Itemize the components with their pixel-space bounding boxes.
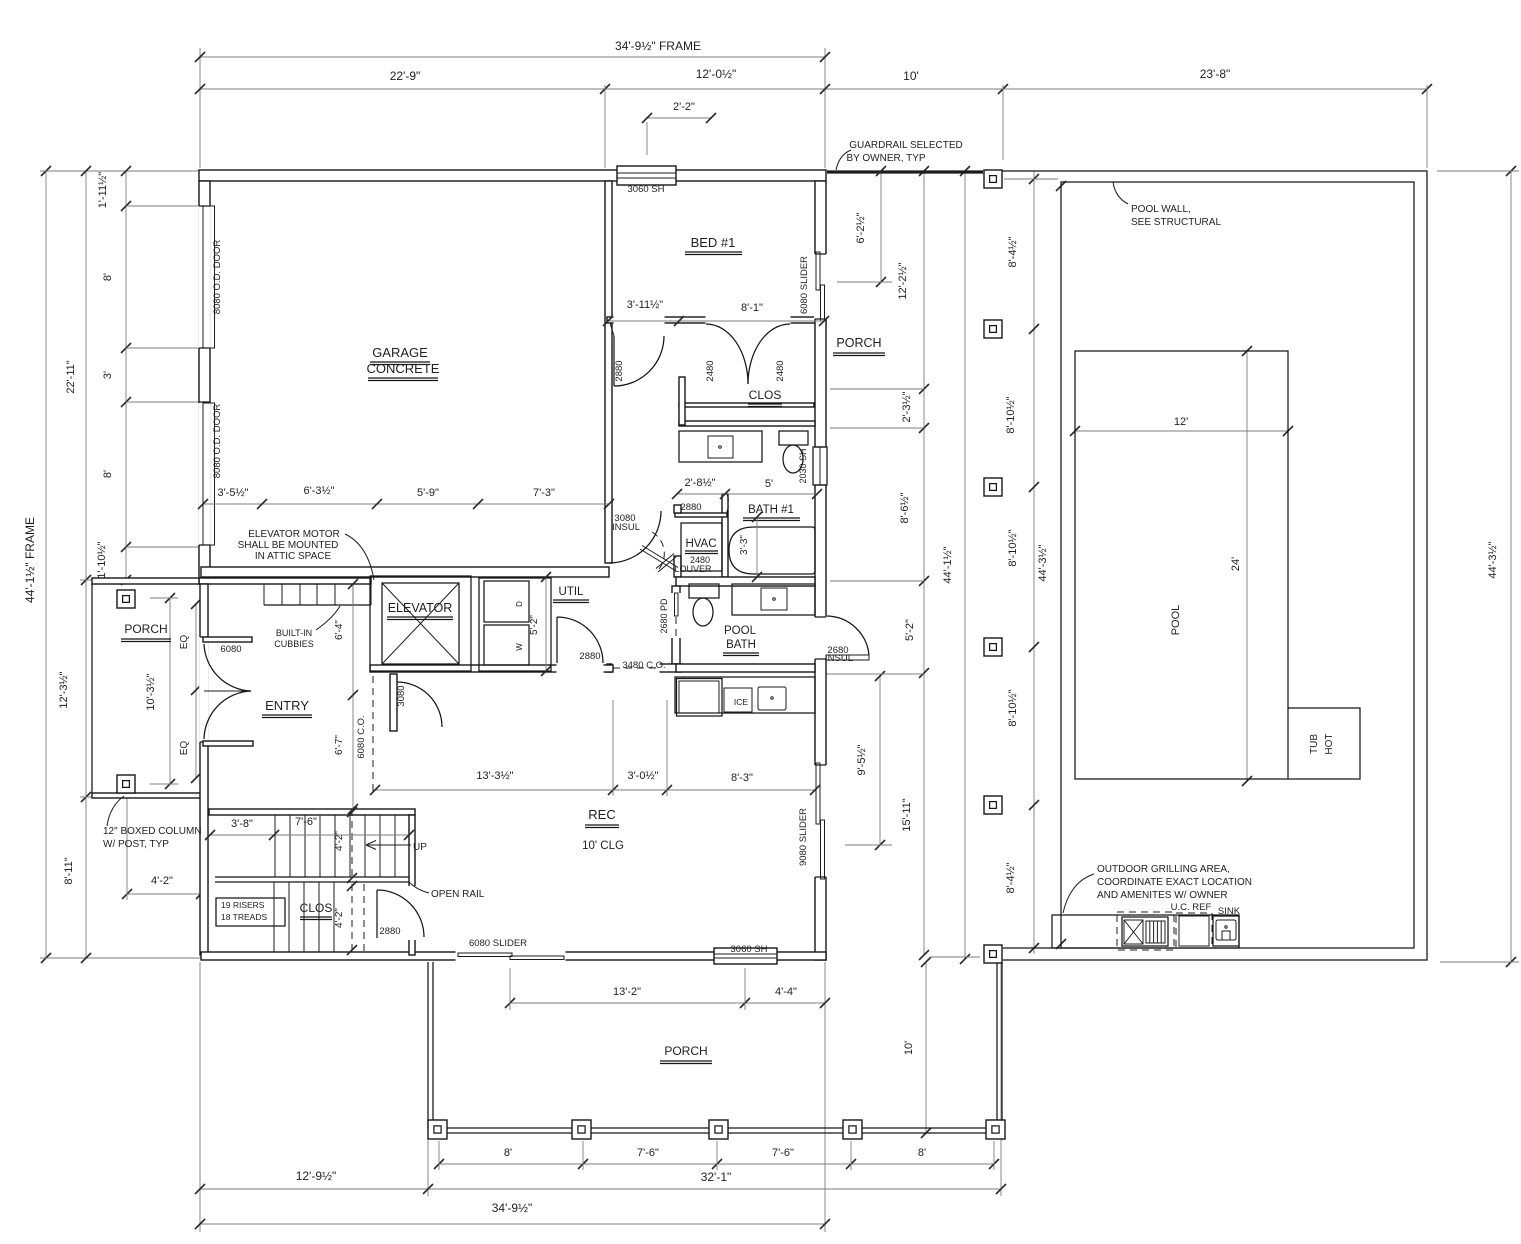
- svg-text:SEE STRUCTURAL: SEE STRUCTURAL: [1131, 217, 1221, 228]
- svg-text:CUBBIES: CUBBIES: [274, 639, 314, 649]
- svg-text:2'-2": 2'-2": [673, 101, 695, 113]
- closet door opening 2480x2: [706, 316, 791, 324]
- dim east column chain 8-4.5/8-10.5x3/8-4.5: [1033, 171, 1035, 954]
- svg-text:8'-3": 8'-3": [731, 772, 753, 784]
- svg-text:COORDINATE EXACT LOCATION: COORDINATE EXACT LOCATION: [1097, 877, 1252, 888]
- uc ref dashed box: [1176, 913, 1212, 948]
- dim chain 12-2.5/2-3.5/8-6.5/5-2/15-11: [923, 171, 925, 955]
- porch column: [572, 1120, 591, 1139]
- svg-text:7'-6": 7'-6": [637, 1147, 659, 1159]
- pool: [1075, 351, 1360, 779]
- 3'-3" dim: [756, 517, 758, 577]
- svg-text:2480: 2480: [775, 360, 786, 381]
- svg-text:4'-4": 4'-4": [775, 986, 797, 998]
- svg-text:UTIL: UTIL: [559, 586, 585, 598]
- svg-text:10' CLG: 10' CLG: [582, 840, 624, 852]
- svg-text:44'-3½": 44'-3½": [1487, 541, 1499, 578]
- util door 2880: [556, 617, 558, 663]
- svg-text:EQ: EQ: [179, 741, 190, 756]
- under-stair dashed lines + 4'-2" dims: [351, 809, 353, 880]
- svg-text:INSUL: INSUL: [825, 653, 853, 664]
- svg-text:34'-9½": 34'-9½": [492, 1201, 533, 1215]
- svg-text:9080 SLIDER: 9080 SLIDER: [798, 808, 809, 866]
- svg-text:44'-1½": 44'-1½": [942, 546, 954, 583]
- svg-text:2'-8½": 2'-8½": [684, 477, 715, 489]
- south porch rails: [427, 962, 429, 1129]
- dim 24' (pool): [1246, 351, 1248, 781]
- 6'-4" / 6'-7" dim: [352, 584, 354, 809]
- HVAC north wall: [675, 513, 727, 517]
- slider 9080 symbol (rec): [816, 763, 820, 824]
- HVAC west jamb: [674, 505, 681, 513]
- svg-text:LOUVER: LOUVER: [674, 564, 712, 574]
- svg-text:12'-9½": 12'-9½": [296, 1169, 337, 1183]
- svg-text:BATH: BATH: [726, 639, 756, 651]
- rec dim 13'-3 1/2" / 3'-0 1/2" / 8'-3": [375, 789, 815, 791]
- svg-text:7'-6": 7'-6": [295, 816, 317, 828]
- stair east wall: [409, 815, 415, 955]
- porch column: [843, 1120, 862, 1139]
- svg-text:HOT: HOT: [1324, 733, 1335, 754]
- svg-text:5': 5': [765, 478, 773, 490]
- pool wall inner: [1061, 182, 1414, 948]
- dim 12' (pool): [1075, 430, 1288, 432]
- svg-text:CLOS: CLOS: [749, 388, 782, 402]
- svg-text:22'-11": 22'-11": [65, 360, 77, 393]
- guardrail (top porch edge): [827, 170, 983, 173]
- garage south wall: [201, 567, 609, 577]
- slider 9080 opening: [814, 765, 827, 877]
- svg-text:4'-2": 4'-2": [334, 831, 345, 851]
- svg-text:5'-2": 5'-2": [529, 615, 540, 635]
- window 2030 opening: [814, 447, 827, 485]
- grill sink: [1213, 916, 1239, 946]
- svg-text:3'-11½": 3'-11½": [627, 299, 663, 311]
- svg-text:2880: 2880: [614, 360, 625, 381]
- svg-text:POOL WALL,: POOL WALL,: [1131, 204, 1191, 215]
- dim 34'-9 1/2" (bottom): [200, 1223, 825, 1225]
- svg-text:W/ POST, TYP: W/ POST, TYP: [103, 839, 169, 850]
- pool bath vanity: [732, 584, 815, 615]
- svg-text:2680 PD: 2680 PD: [659, 598, 669, 634]
- garage bottom dim 3-5.5/6-3.5/5-9/7-3: [203, 503, 609, 505]
- kitchen counter: [675, 677, 815, 713]
- dim porch columns 8/7-6/7-6/8 (bottom): [439, 1163, 994, 1165]
- stair upper flight treads: [274, 815, 276, 877]
- svg-text:5'-9": 5'-9": [417, 487, 439, 499]
- svg-text:U.C. REF: U.C. REF: [1171, 902, 1212, 913]
- svg-text:PORCH: PORCH: [664, 1044, 707, 1058]
- svg-text:15'-11": 15'-11": [901, 798, 913, 831]
- svg-text:PORCH: PORCH: [836, 336, 881, 350]
- svg-text:BUILT-IN: BUILT-IN: [276, 628, 312, 638]
- east exterior wall: [815, 181, 826, 960]
- bath toilet: [779, 431, 808, 445]
- svg-text:UP: UP: [413, 842, 427, 853]
- svg-text:SINK: SINK: [1218, 906, 1241, 917]
- svg-text:8': 8': [102, 273, 114, 281]
- pool bath toilet: [689, 584, 719, 598]
- svg-text:BATH #1: BATH #1: [748, 504, 794, 516]
- W/D closet: [479, 578, 551, 671]
- slider 6080 symbol (south): [458, 953, 512, 957]
- svg-text:18 TREADS: 18 TREADS: [221, 912, 267, 922]
- svg-text:12" BOXED COLUMN: 12" BOXED COLUMN: [103, 826, 202, 837]
- window 3060 SH symbol (south): [714, 948, 777, 964]
- svg-text:OUTDOOR GRILLING AREA,: OUTDOOR GRILLING AREA,: [1097, 864, 1230, 875]
- bath dim 2'-8 1/2" / 5': [677, 493, 817, 495]
- svg-text:REC: REC: [588, 807, 615, 822]
- elevator shaft: [370, 576, 471, 671]
- grill dashed box: [1117, 912, 1174, 950]
- svg-text:BY OWNER, TYP: BY OWNER, TYP: [846, 153, 925, 164]
- dim 6'-2 1/2": [880, 171, 882, 282]
- svg-text:1'-10½": 1'-10½": [96, 541, 108, 578]
- svg-text:22'-9": 22'-9": [390, 69, 421, 83]
- dim 10' (porch right): [925, 962, 927, 1133]
- porch column: [986, 1120, 1005, 1139]
- svg-text:8': 8': [504, 1147, 512, 1159]
- stair landing: [215, 876, 409, 878]
- svg-text:2880: 2880: [379, 926, 400, 937]
- svg-text:3'-0½": 3'-0½": [627, 770, 658, 782]
- bath vanity: [679, 431, 762, 462]
- svg-text:1'-11½": 1'-11½": [97, 172, 109, 208]
- svg-text:POOL: POOL: [1170, 605, 1182, 636]
- garage door opening A: [198, 206, 211, 348]
- svg-text:SHALL BE MOUNTED: SHALL BE MOUNTED: [238, 540, 339, 551]
- bar sink: [758, 687, 786, 710]
- dim 4'-2" (porch col): [127, 893, 201, 895]
- south wall opening jamb caps: [455, 952, 457, 960]
- svg-text:8'-10½": 8'-10½": [1007, 529, 1019, 566]
- svg-text:6080 SLIDER: 6080 SLIDER: [469, 938, 527, 949]
- svg-text:3'-8": 3'-8": [231, 818, 253, 830]
- porch column: [117, 775, 135, 793]
- svg-text:AND AMENITES W/ OWNER: AND AMENITES W/ OWNER: [1097, 890, 1228, 901]
- slider 6080 symbol (bed): [816, 252, 820, 290]
- svg-text:IN ATTIC SPACE: IN ATTIC SPACE: [255, 551, 332, 562]
- svg-text:EQ: EQ: [179, 635, 190, 650]
- svg-text:4'-2": 4'-2": [334, 908, 345, 928]
- pool bath west wall: [672, 586, 680, 664]
- svg-text:8'-11": 8'-11": [63, 857, 75, 884]
- stair hall door 3080: [390, 674, 397, 731]
- fridge box: [677, 679, 723, 717]
- stair north wall: [209, 809, 415, 815]
- elevator row south wall: [370, 665, 613, 672]
- dim 44'-1 1/2" (porch/pool): [964, 171, 966, 959]
- west wall (entry/stairs): [200, 584, 208, 955]
- svg-text:INSUL: INSUL: [612, 522, 640, 533]
- svg-text:34'-9½" FRAME: 34'-9½" FRAME: [615, 39, 701, 53]
- svg-text:8': 8': [918, 1147, 926, 1159]
- svg-text:6080 SLIDER: 6080 SLIDER: [799, 256, 810, 314]
- front door 6080 double: [203, 637, 252, 642]
- pocket door 2680 PD symbol: [675, 593, 679, 616]
- svg-text:9'-5½": 9'-5½": [856, 744, 868, 775]
- slider 6080 opening: [814, 254, 827, 319]
- svg-text:4'-2": 4'-2": [151, 875, 173, 887]
- svg-text:GARAGE: GARAGE: [372, 345, 428, 360]
- dim 2'-2" (window offset): [647, 117, 711, 119]
- svg-text:3080: 3080: [396, 685, 407, 706]
- pool bath door 2680 INSUL: [826, 655, 869, 660]
- svg-text:8'-6½": 8'-6½": [899, 492, 911, 523]
- dim 44'-3 1/2" (far right): [1510, 171, 1512, 962]
- porch column: [984, 320, 1002, 338]
- grill: [1122, 917, 1168, 946]
- svg-text:12': 12': [1174, 416, 1188, 428]
- porch column: [428, 1120, 447, 1139]
- porch column: [984, 796, 1002, 814]
- svg-text:2'-3½": 2'-3½": [901, 391, 913, 422]
- svg-text:19 RISERS: 19 RISERS: [221, 900, 265, 910]
- porch column: [984, 170, 1002, 188]
- dim EQ / EQ (front door): [195, 604, 197, 778]
- svg-text:44'-1½" FRAME: 44'-1½" FRAME: [23, 517, 37, 603]
- svg-text:6'-7": 6'-7": [334, 735, 345, 755]
- pool wall outer: [1002, 171, 1427, 960]
- svg-text:ENTRY: ENTRY: [265, 698, 309, 713]
- svg-text:7'-3": 7'-3": [533, 487, 555, 499]
- entry north wall: [199, 578, 371, 584]
- north exterior wall: [199, 170, 826, 181]
- svg-text:6080: 6080: [220, 644, 241, 655]
- svg-text:W: W: [515, 643, 524, 651]
- HVAC closet: [681, 523, 722, 571]
- util door opening 2880: [557, 664, 604, 673]
- svg-text:CONCRETE: CONCRETE: [367, 361, 440, 376]
- svg-text:23'-8": 23'-8": [1200, 67, 1231, 81]
- bath north wall: [679, 421, 815, 426]
- bed south wall: [607, 317, 826, 323]
- grill counter: [1052, 915, 1239, 948]
- bed door opening 2880: [614, 316, 665, 324]
- cased opening 3480: [613, 663, 660, 673]
- svg-text:3060 SH: 3060 SH: [628, 184, 665, 195]
- grill bars: [1145, 921, 1147, 943]
- slider 6080 opening (rec south): [456, 951, 566, 961]
- svg-text:12'-2½": 12'-2½": [897, 262, 909, 299]
- dim 12'-9 1/2" / 32'-1" (bottom): [199, 962, 201, 1232]
- svg-text:BED #1: BED #1: [691, 235, 736, 250]
- svg-text:CLOS: CLOS: [300, 901, 333, 915]
- svg-text:6'-3½": 6'-3½": [303, 485, 334, 497]
- svg-text:2480: 2480: [705, 360, 716, 381]
- svg-text:6080 C.O.: 6080 C.O.: [356, 715, 367, 758]
- svg-text:32'-1": 32'-1": [701, 1170, 732, 1184]
- svg-text:D: D: [515, 601, 524, 607]
- svg-text:2030 SH: 2030 SH: [798, 448, 808, 483]
- 5'-2" dim: [545, 577, 547, 671]
- porch column: [709, 1120, 728, 1139]
- bed dim 3'-11 1/2" / 8'-1": [608, 320, 824, 322]
- cased opening dashes: [613, 667, 659, 669]
- svg-text:24': 24': [1230, 557, 1242, 571]
- uc ref: [1179, 916, 1209, 946]
- svg-text:13'-3½": 13'-3½": [476, 770, 513, 782]
- svg-text:8'-1": 8'-1": [741, 302, 763, 314]
- door 2880 (stair closet): [376, 890, 378, 938]
- porch column: [117, 590, 135, 608]
- pool bath door opening: [814, 617, 827, 659]
- bath west wall: [722, 494, 728, 577]
- stair closet door opening: [408, 886, 416, 940]
- window 2030 SH symbol: [813, 447, 827, 485]
- UP arrow: [366, 844, 411, 846]
- west exterior wall (garage): [199, 181, 210, 583]
- window 3060 SH (bed): [617, 166, 676, 185]
- tub: [729, 527, 815, 574]
- closet double doors 2480: [706, 324, 748, 384]
- hall stub wall: [679, 377, 685, 425]
- svg-text:8'-10½": 8'-10½": [1007, 689, 1019, 726]
- svg-text:10'-3½": 10'-3½": [145, 673, 157, 710]
- porch column: [984, 638, 1002, 656]
- louver door diagonal: [656, 554, 676, 573]
- dim 3'-8" / 7'-6" (stairs): [210, 834, 409, 836]
- svg-text:12'-3½": 12'-3½": [58, 671, 70, 708]
- svg-text:3'-5½": 3'-5½": [217, 487, 248, 499]
- dim 10'-3 1/2" (left porch): [169, 598, 171, 784]
- bed door 2880: [613, 336, 615, 386]
- svg-text:OPEN RAIL: OPEN RAIL: [431, 889, 485, 900]
- svg-text:8'-10½": 8'-10½": [1005, 396, 1017, 433]
- svg-text:POOL: POOL: [724, 625, 757, 637]
- svg-text:HVAC: HVAC: [685, 538, 716, 550]
- dim 34'-9 1/2" FRAME (top): [199, 48, 201, 168]
- dim 44'-1 1/2" FRAME (left): [45, 171, 47, 958]
- svg-text:6'-4": 6'-4": [334, 620, 345, 640]
- south exterior wall: [201, 952, 826, 960]
- dim 44'-3 1/2" (pool wall line): [1056, 181, 1066, 191]
- svg-text:3'-3": 3'-3": [739, 535, 750, 555]
- svg-text:10': 10': [903, 1041, 915, 1055]
- closet south wall: [679, 403, 814, 407]
- dim chain 22'-9" / 12'-0 1/2" / 10' / 23'-8" (top): [200, 88, 1427, 90]
- porch column: [984, 945, 1002, 963]
- svg-text:6'-2½": 6'-2½": [855, 212, 867, 243]
- svg-text:8080 O.D. DOOR: 8080 O.D. DOOR: [212, 240, 223, 315]
- svg-text:ELEVATOR MOTOR: ELEVATOR MOTOR: [248, 529, 340, 540]
- svg-text:3': 3': [102, 371, 114, 379]
- svg-text:GUARDRAIL SELECTED: GUARDRAIL SELECTED: [849, 140, 963, 151]
- svg-text:2880: 2880: [680, 502, 701, 513]
- left porch walls: [92, 578, 199, 584]
- svg-text:7'-6": 7'-6": [772, 1147, 794, 1159]
- svg-text:13'-2": 13'-2": [613, 986, 641, 998]
- svg-text:44'-3½": 44'-3½": [1037, 544, 1049, 581]
- svg-text:5'-2": 5'-2": [904, 619, 916, 641]
- svg-text:3480 C.O.: 3480 C.O.: [622, 660, 665, 671]
- east wall opening jamb caps: [815, 253, 826, 255]
- ice bin: [724, 688, 752, 712]
- svg-text:ICE: ICE: [734, 697, 749, 707]
- svg-text:10': 10': [903, 69, 919, 83]
- dim 13'-2" / 4'-4" (porch): [510, 1002, 825, 1004]
- svg-text:ELEVATOR: ELEVATOR: [388, 601, 453, 615]
- svg-text:3060 SH: 3060 SH: [731, 944, 768, 955]
- svg-text:PORCH: PORCH: [124, 622, 167, 636]
- window 3060 opening (rec south): [718, 951, 774, 961]
- svg-text:8': 8': [102, 470, 114, 478]
- garage/bed wall: [605, 181, 612, 563]
- svg-text:12'-0½": 12'-0½": [696, 67, 737, 81]
- 6080 C.O. dashed opening: [372, 676, 374, 793]
- riser/tread note box: [216, 898, 285, 926]
- garage door opening B: [198, 403, 211, 545]
- svg-text:8'-4½": 8'-4½": [1005, 862, 1017, 893]
- pocket door 2680 opening: [671, 593, 681, 638]
- stair lower flight treads: [273, 882, 275, 952]
- dim chain garage doors 1'-11.5/8/3/8/1'-10.5 (left): [125, 171, 127, 580]
- dim chain 22'-11 / 12'-3 1/2 / 8'-11 (left): [85, 171, 87, 958]
- svg-text:8080 O.D. DOOR: 8080 O.D. DOOR: [212, 404, 223, 479]
- bath/pool-bath wall: [676, 577, 815, 586]
- dim 9'-5 1/2": [879, 676, 881, 845]
- porch column: [984, 478, 1002, 496]
- svg-text:TUB: TUB: [1309, 734, 1320, 754]
- svg-text:2880: 2880: [579, 651, 600, 662]
- svg-text:8'-4½": 8'-4½": [1007, 236, 1019, 267]
- built-in cubbies: [263, 584, 265, 605]
- front door opening 6080: [199, 637, 209, 742]
- rec north / pool bath south wall: [607, 664, 681, 672]
